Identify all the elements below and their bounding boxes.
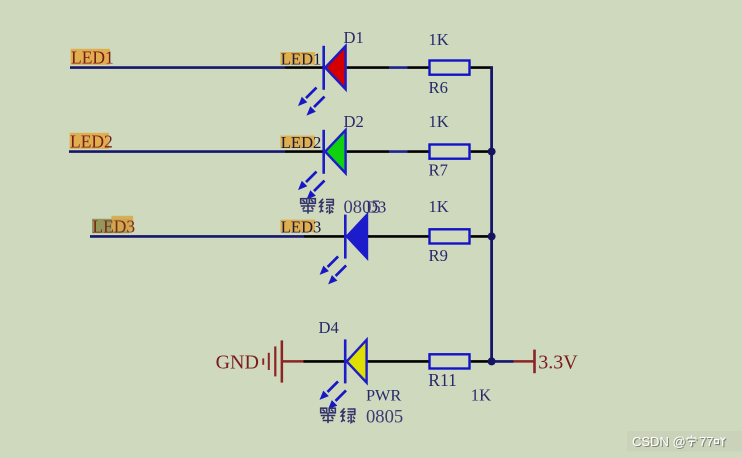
LED D1 emission arrows — [298, 88, 325, 116]
comment text 0805 (row4) — [366, 407, 403, 428]
pin D4 cathode (black) — [304, 360, 345, 363]
comment text cui-lv 0805 (row4) glyph2 — [341, 408, 355, 422]
wire row4 right (navy) — [492, 360, 514, 363]
junction node row4 — [488, 357, 496, 365]
svg-text:PWR: PWR — [366, 385, 401, 404]
svg-text:1K: 1K — [429, 30, 449, 49]
pin D3 anode (black) — [368, 235, 430, 238]
power port 3.3V text — [538, 351, 578, 373]
wire row3 left (net LED3) — [90, 235, 304, 238]
svg-text:0805: 0805 — [344, 197, 381, 218]
svg-text:LED3: LED3 — [281, 218, 322, 237]
pin R9 right (black) — [471, 235, 492, 238]
svg-text:1K: 1K — [471, 385, 491, 404]
comment text cui-lv 0805 (row4) glyph1 — [321, 408, 336, 423]
wire row1 mid (blue) — [389, 66, 408, 69]
resistor R7 body — [430, 145, 470, 159]
pin D2 anode (black) — [347, 150, 389, 153]
net label LED1 (at diode) highlight — [280, 52, 315, 65]
svg-text:GND: GND — [216, 351, 259, 373]
pin D3 cathode (black) — [304, 235, 344, 238]
LED D3 emission arrows — [320, 256, 347, 284]
pin R6 right / corner wire (black) — [471, 66, 493, 69]
wire 3.3V stub (dark red) — [514, 360, 534, 363]
LED D4 cathode bar — [344, 339, 347, 383]
net label LED2 (left port) text — [70, 132, 113, 152]
LED D2 triangle (green) — [325, 130, 345, 173]
resistor R6 body — [430, 61, 470, 75]
pin D4 anode (black) — [368, 360, 430, 363]
net label LED2 (at diode) text — [281, 133, 322, 152]
pin R11 right (black) — [471, 360, 492, 363]
junction node row3 — [488, 232, 496, 240]
LED D1 triangle (red) — [325, 46, 345, 89]
net label LED3 (left port) text — [92, 216, 135, 236]
value 1K of R11 — [471, 385, 491, 404]
svg-text:R7: R7 — [429, 161, 448, 180]
wire row2 left (net LED2) — [69, 150, 285, 153]
pin R7 right (black) — [471, 150, 492, 153]
designator R7 — [429, 161, 448, 180]
net label LED3 (at diode) text — [281, 218, 322, 237]
comment text cui-lv 0805 (row3) glyph2 — [320, 199, 334, 213]
svg-text:3.3V: 3.3V — [538, 351, 578, 373]
net label LED1 (at diode) text — [281, 49, 322, 68]
svg-text:LED1: LED1 — [281, 49, 322, 68]
wire GND stub (dark red) — [283, 360, 304, 363]
value 1K of R9 — [429, 197, 449, 216]
svg-text:D1: D1 — [344, 28, 364, 47]
svg-text:CSDN @: CSDN @ — [632, 434, 686, 449]
wire row2 mid (blue) — [389, 150, 408, 153]
svg-text:LED3: LED3 — [92, 216, 135, 236]
svg-text:LED1: LED1 — [71, 48, 114, 68]
svg-text:77: 77 — [699, 434, 713, 449]
designator D4 — [319, 318, 340, 337]
designator D1 — [344, 28, 364, 47]
watermark text light — [632, 434, 725, 449]
designator D2 — [344, 112, 364, 131]
designator R11 — [428, 370, 457, 390]
LED D3 cathode bar — [344, 215, 347, 259]
pin R6 left (black) — [408, 66, 430, 69]
power ground symbol bar3 — [274, 346, 276, 376]
svg-text:LED2: LED2 — [281, 133, 322, 152]
power ground symbol bar1 — [262, 358, 264, 364]
net label LED3 (left port) highlight olive — [92, 219, 129, 233]
LED D3 triangle (blue) — [347, 215, 367, 258]
net label LED3 (left port) highlight gold — [111, 216, 133, 231]
power ground symbol bar4 — [281, 340, 284, 382]
value 1K of R7 — [429, 112, 449, 131]
pin D1 anode (black) — [347, 66, 389, 69]
net label LED1 (left port) text — [71, 48, 114, 68]
svg-text:D4: D4 — [319, 318, 340, 337]
wire row1 left (net LED1) — [70, 66, 285, 69]
LED D4 emission arrows — [320, 381, 347, 409]
power port GND text — [216, 351, 259, 373]
resistor R9 body — [430, 229, 470, 243]
label PWR — [366, 385, 401, 404]
pin D2 cathode (black) — [285, 150, 323, 153]
pin R7 left (black) — [408, 150, 430, 153]
pin D1 cathode (black) — [285, 66, 323, 69]
net label LED2 (at diode) highlight — [280, 136, 315, 149]
value 1K of R6 — [429, 30, 449, 49]
vertical bus wire (navy) — [490, 66, 493, 361]
net label LED1 (left port) highlight — [71, 49, 110, 65]
LED D4 triangle (yellow) — [347, 340, 367, 383]
svg-text:D2: D2 — [344, 112, 364, 131]
comment text cui-lv 0805 (row3) glyph1 — [301, 199, 316, 214]
svg-text:R9: R9 — [429, 246, 448, 265]
svg-text:R11: R11 — [428, 370, 457, 390]
junction node row2 — [488, 148, 496, 156]
svg-text:1K: 1K — [429, 112, 449, 131]
designator R6 — [429, 78, 448, 97]
LED D2 emission arrows — [298, 172, 325, 200]
svg-text:R6: R6 — [429, 78, 448, 97]
svg-text:LED2: LED2 — [70, 132, 113, 152]
svg-text:1K: 1K — [429, 197, 449, 216]
watermark background — [627, 431, 742, 452]
power ground symbol bar2 — [268, 353, 270, 370]
svg-text:0805: 0805 — [366, 407, 403, 428]
net label LED3 (at diode) highlight — [280, 220, 315, 233]
watermark text shadow — [633, 435, 726, 450]
LED D1 cathode bar — [322, 46, 325, 90]
net label LED2 (left port) highlight — [70, 133, 109, 149]
designator R9 — [429, 246, 448, 265]
resistor R11 body — [430, 354, 470, 368]
LED D2 cathode bar — [322, 130, 325, 174]
designator D3 — [366, 197, 386, 216]
power port 3.3V bar — [533, 350, 536, 374]
comment text 0805 (row3) — [344, 197, 381, 218]
